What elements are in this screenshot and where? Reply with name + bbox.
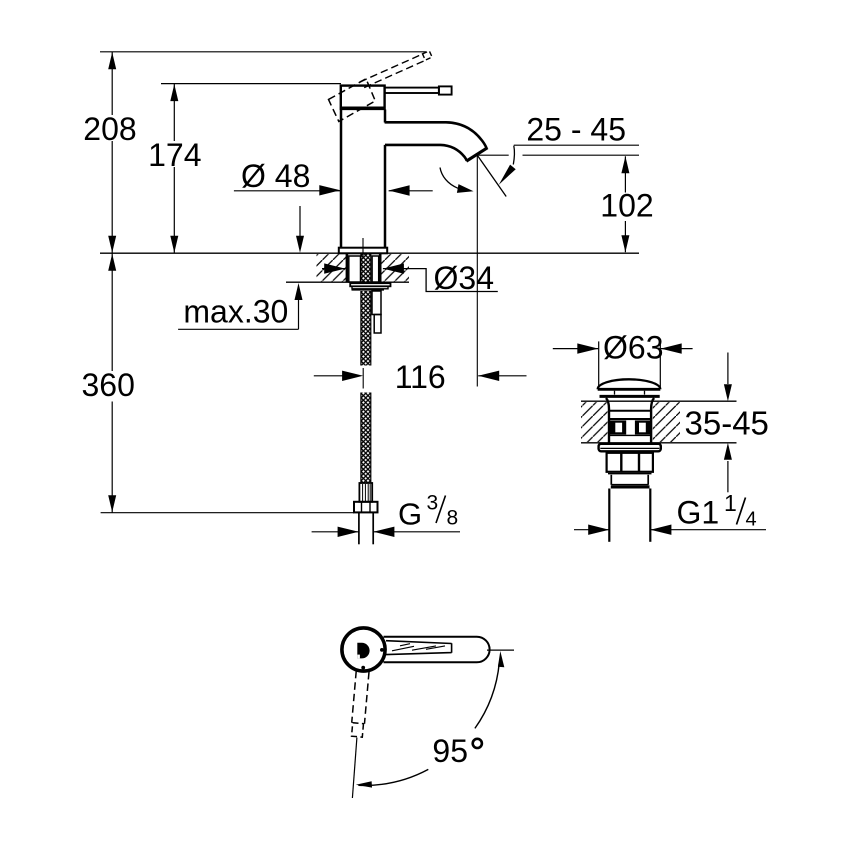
drain body shoulder lines — [609, 410, 651, 412]
max.30 top arrow — [299, 206, 301, 236]
lever rod (top view) — [386, 641, 452, 655]
drain cage — [610, 420, 651, 434]
mounting bolt — [372, 291, 381, 315]
body circle (top view) — [342, 628, 385, 671]
drain washer 2 — [610, 475, 612, 485]
dimension 48 right arrow — [389, 190, 433, 192]
dimension 63 extension lines — [598, 341, 600, 388]
dimension 360 vertical line — [111, 253, 113, 371]
screw dot right — [380, 648, 384, 652]
25-45 underline — [514, 144, 639, 146]
svg-text:95: 95 — [432, 733, 468, 769]
shank right sleeve — [372, 256, 379, 282]
svg-text:G1: G1 — [677, 495, 720, 531]
braided hose lower — [361, 393, 371, 484]
spout cut face — [466, 148, 487, 162]
dimension 34 arrows — [322, 268, 345, 270]
svg-text:208: 208 — [83, 111, 136, 147]
angle ray — [352, 738, 357, 798]
svg-text:174: 174 — [148, 137, 201, 173]
svg-text:4: 4 — [746, 508, 757, 530]
faucet lever tip — [439, 86, 452, 94]
drain bottom ring — [611, 485, 650, 488]
faucet body — [340, 110, 343, 249]
dimension 48 left arrow — [234, 190, 340, 192]
deck hole left edge — [346, 254, 349, 282]
shank left sleeve — [349, 256, 361, 282]
dimension 63 arrows — [553, 348, 599, 350]
reference centerline right — [487, 649, 514, 651]
dimension 102 vertical — [624, 156, 626, 192]
hose nut — [354, 502, 378, 513]
counter bottom line — [286, 281, 409, 283]
threaded shank in hole — [361, 254, 371, 282]
drain washer flange — [599, 444, 661, 452]
dashed lever rotated 95 deg — [351, 671, 369, 737]
cartridge D detail — [357, 643, 369, 659]
lever rod shading streaks — [392, 644, 445, 651]
svg-text:25 - 45: 25 - 45 — [526, 111, 626, 147]
dimension 35-45 arrows — [727, 353, 729, 385]
diameter 34 leader — [409, 269, 498, 292]
lever capsule (top view) — [384, 637, 490, 663]
svg-text:G: G — [398, 497, 422, 532]
stream direction curved arrow — [440, 168, 458, 189]
dimension 116 left arrow — [314, 375, 347, 377]
dimension G3/8 arrows — [312, 531, 359, 533]
spout bottom edge — [385, 145, 467, 161]
drain hex nut — [607, 453, 653, 472]
svg-text:102: 102 — [600, 188, 653, 224]
mounting washer under counter — [350, 283, 390, 286]
svg-text:Ø63: Ø63 — [603, 330, 663, 366]
dimension 208 vertical line — [111, 52, 113, 115]
basin deck hatch left — [581, 402, 608, 442]
dimension 174 vertical line — [173, 84, 175, 141]
95 deg arc — [358, 663, 499, 786]
svg-text:8: 8 — [447, 507, 459, 530]
dimension G1 1/4 arrows — [574, 529, 609, 531]
max.30 bottom arrow and leader — [298, 300, 300, 329]
braided hose upper — [361, 291, 371, 366]
25-45 curved leader arrow — [513, 146, 514, 165]
spout tip projection line — [476, 155, 478, 386]
counter hatch right — [381, 254, 409, 281]
svg-text:35-45: 35-45 — [685, 405, 769, 442]
dimension 360 bottom extension line — [101, 512, 354, 514]
extension line spout tip level — [477, 154, 508, 156]
dashed lever rod — [360, 54, 424, 82]
svg-text:max.30: max.30 — [183, 294, 288, 330]
drain cap push seam ticks — [614, 391, 616, 395]
svg-text:1: 1 — [724, 490, 737, 516]
counter top line — [100, 252, 639, 254]
basin deck top line — [581, 400, 737, 402]
drain cap dome — [598, 379, 661, 389]
spout top edge — [385, 122, 487, 148]
dashed lever tip — [423, 51, 433, 60]
screw dot bottom — [361, 666, 365, 670]
hose crimp fitting — [359, 483, 372, 502]
svg-text:Ø 48: Ø 48 — [241, 158, 310, 194]
dimension 116 right arrow — [478, 375, 526, 377]
svg-text:360: 360 — [82, 367, 135, 403]
svg-text:116: 116 — [395, 359, 446, 395]
drain body neck — [606, 398, 609, 443]
dimension line 174 extension — [161, 83, 341, 85]
faucet lever rod — [385, 88, 439, 93]
stream angle line — [477, 155, 506, 196]
basin deck hatch right — [653, 402, 680, 442]
centerline tick at 116 — [362, 368, 364, 389]
counter hatch left — [317, 254, 347, 281]
drain cap lower lip — [600, 395, 660, 398]
dimension line 208 top extension — [100, 51, 426, 53]
dashed cap (rotated position) — [329, 79, 376, 122]
faucet base — [339, 248, 387, 254]
svg-text:3: 3 — [427, 492, 439, 515]
faucet cap — [341, 86, 385, 109]
svg-text:Ø34: Ø34 — [434, 260, 494, 296]
deck hole right edge — [379, 254, 382, 282]
drain body white band below cage — [610, 434, 651, 436]
faucet centerline — [362, 238, 364, 258]
hose end tube G3/8 — [358, 512, 360, 544]
drain tail pipe G1 1/4 — [608, 489, 610, 542]
basin deck bottom line — [581, 442, 737, 444]
